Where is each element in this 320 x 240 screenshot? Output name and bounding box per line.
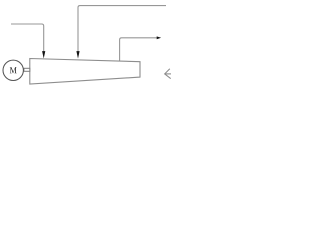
wire feed line 2 (top inlet from right header) (78, 6, 166, 52)
motor label M (10, 67, 17, 73)
discharge arrow (open chevron, pointing left, clipped at right edge) (165, 69, 172, 79)
arrowhead vapor outlet (right) (157, 36, 161, 39)
motor M (circle) (3, 60, 23, 80)
arrowhead feed 1 (down) (42, 51, 45, 58)
wire feed line 1 (top-left inlet) (11, 24, 44, 52)
wire vapor outlet (up then right) (120, 38, 157, 62)
arrowhead feed 2 (down) (76, 51, 79, 59)
shaft coupling between motor and vessel (24, 68, 30, 71)
vessel body (tapered screw conveyor trough) (30, 59, 140, 85)
